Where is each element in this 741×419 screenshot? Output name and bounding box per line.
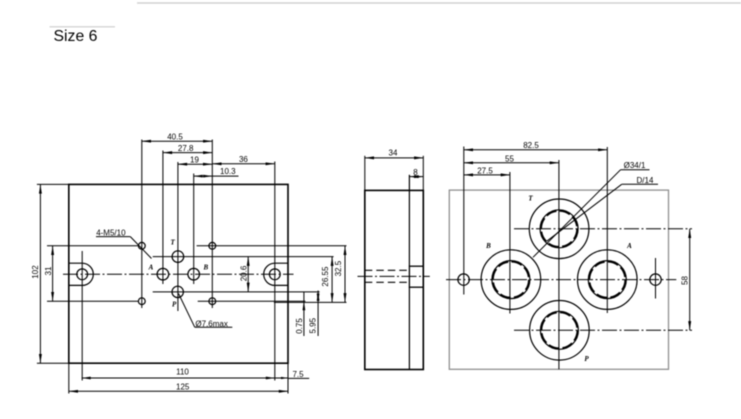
main horizontal centerline xyxy=(63,273,294,275)
port A back: thread xyxy=(589,262,625,298)
svg-text:B: B xyxy=(485,242,491,250)
centerline port A column xyxy=(162,151,164,285)
hidden hole line upper xyxy=(365,269,410,271)
svg-text:T: T xyxy=(528,195,533,203)
plate outline back view xyxy=(449,190,668,369)
dim 31 xyxy=(44,246,53,301)
dim 102 xyxy=(31,184,40,363)
dim 27.8 xyxy=(163,144,212,153)
svg-text:27.8: 27.8 xyxy=(178,144,194,153)
extension P row right xyxy=(153,291,320,293)
plate outline side view xyxy=(365,190,424,369)
dim 36 xyxy=(212,155,274,164)
left side hole xyxy=(77,269,88,280)
port B left view xyxy=(188,268,200,280)
side hole left back xyxy=(458,274,469,285)
svg-text:P: P xyxy=(172,301,177,309)
dim 110 xyxy=(82,368,288,380)
svg-text:5.95: 5.95 xyxy=(309,317,318,333)
label D/14 xyxy=(547,176,658,242)
dim 8 xyxy=(409,168,423,177)
M5 hole bottom-right xyxy=(209,298,216,305)
counterbore slot right hole xyxy=(264,263,288,285)
inner face line lower xyxy=(408,287,410,369)
right side hole xyxy=(269,269,280,280)
M5 hole bottom-left xyxy=(138,298,145,305)
counterbore slot left hole xyxy=(69,263,93,285)
dim 5.95 xyxy=(309,291,320,337)
dim 10.3 xyxy=(194,167,239,177)
port T back: bore xyxy=(540,210,578,248)
extension left hole column back xyxy=(463,147,465,295)
port P back: thread xyxy=(541,312,577,348)
M5 hole top-right xyxy=(209,242,216,249)
port T back: counterbore xyxy=(529,199,589,259)
svg-text:58: 58 xyxy=(680,276,689,285)
plate outline left view xyxy=(69,184,288,363)
M5 hole top-left xyxy=(138,242,145,249)
dim 19 xyxy=(178,156,212,165)
port B back: bore xyxy=(492,261,530,299)
dim 58 xyxy=(680,229,689,330)
centerline T/P column back xyxy=(558,160,560,369)
extension plate top edge left xyxy=(37,183,69,185)
extension T row right xyxy=(153,256,334,258)
svg-text:26.55: 26.55 xyxy=(321,266,330,287)
centerline M5 column right xyxy=(211,140,213,309)
svg-text:34: 34 xyxy=(389,149,398,158)
dim 125 xyxy=(69,383,288,392)
port B back: thread xyxy=(493,262,529,298)
svg-text:7.5: 7.5 xyxy=(292,370,304,379)
extension plate left edge down xyxy=(68,363,70,393)
svg-text:D/14: D/14 xyxy=(637,176,654,185)
port P back: counterbore xyxy=(530,301,590,361)
extension M5 top row right xyxy=(197,245,347,247)
svg-text:40.5: 40.5 xyxy=(167,133,183,142)
side hole right back xyxy=(650,274,661,285)
port A left view xyxy=(157,268,169,280)
svg-text:B: B xyxy=(202,264,208,272)
svg-text:0.75: 0.75 xyxy=(295,318,304,334)
label 4-M5/10 xyxy=(96,229,152,259)
reference line right xyxy=(274,301,347,303)
header rule above title xyxy=(50,26,116,28)
svg-text:10.3: 10.3 xyxy=(220,167,236,176)
port T left view xyxy=(172,251,184,263)
dim 55 xyxy=(464,155,559,164)
extension left hole column xyxy=(81,251,83,381)
dim 20.6 xyxy=(239,257,248,292)
side view centerline xyxy=(358,275,430,277)
dim 34 xyxy=(365,149,424,158)
label dia 34/1 xyxy=(533,161,650,257)
svg-text:Ø34/1: Ø34/1 xyxy=(624,161,646,170)
extension side top left xyxy=(364,156,366,191)
port B back: counterbore xyxy=(481,250,541,310)
svg-text:31: 31 xyxy=(44,266,53,275)
centerline M5 column left xyxy=(141,140,143,309)
svg-text:125: 125 xyxy=(176,383,190,392)
svg-text:110: 110 xyxy=(176,368,189,377)
extension plate bottom edge left xyxy=(37,362,69,364)
svg-text:32.5: 32.5 xyxy=(334,260,343,276)
centerline A column back xyxy=(606,147,608,313)
header rule top xyxy=(137,2,741,4)
dim 82.5 xyxy=(464,141,608,150)
main row centerline back xyxy=(446,279,676,281)
extension M5 top row left xyxy=(47,245,138,247)
centerline T/P column xyxy=(177,162,179,311)
svg-text:27.5: 27.5 xyxy=(477,167,493,176)
inner face line upper xyxy=(408,175,410,266)
extension right hole column xyxy=(274,162,276,381)
dim 40.5 xyxy=(142,133,213,142)
svg-text:20.6: 20.6 xyxy=(239,265,248,281)
centerline B column back xyxy=(509,172,511,314)
extension M5 bottom row right xyxy=(198,300,306,302)
dim 7.5 xyxy=(289,370,310,379)
svg-text:36: 36 xyxy=(239,155,248,164)
svg-text:P: P xyxy=(584,355,589,363)
port P left view xyxy=(172,286,183,297)
svg-text:8: 8 xyxy=(413,168,418,177)
port P back: bore xyxy=(540,311,578,349)
port A back: bore xyxy=(588,261,626,299)
dim 32.5 xyxy=(334,246,345,303)
extension M5 bottom row left xyxy=(47,300,138,302)
P row centerline back xyxy=(514,329,692,331)
hidden hole line lower xyxy=(365,281,410,283)
extension plate right edge down xyxy=(287,363,289,393)
boss block xyxy=(409,266,423,287)
dim 27.5 xyxy=(464,167,510,176)
svg-text:Size 6: Size 6 xyxy=(54,28,98,45)
extension side top right xyxy=(422,156,424,191)
svg-text:A: A xyxy=(626,242,632,250)
centerline port B column xyxy=(193,174,195,285)
svg-text:82.5: 82.5 xyxy=(523,141,539,150)
right hole vertical centerline back xyxy=(655,258,657,299)
port A back: counterbore xyxy=(578,250,638,310)
dim 26.55 xyxy=(321,257,332,303)
svg-text:102: 102 xyxy=(31,265,40,279)
T row centerline back xyxy=(514,228,692,230)
port T back: thread xyxy=(541,211,577,247)
svg-text:T: T xyxy=(171,239,176,247)
dim 0.75 xyxy=(295,292,305,336)
svg-text:19: 19 xyxy=(190,156,199,165)
svg-text:55: 55 xyxy=(505,155,514,164)
svg-text:A: A xyxy=(148,264,154,272)
label dia 7.6 max xyxy=(179,294,233,329)
